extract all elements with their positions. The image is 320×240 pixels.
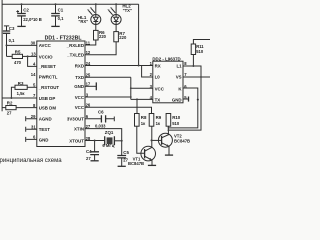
svg-text:DD2 - L9637D: DD2 - L9637D [152, 56, 180, 61]
svg-text:27: 27 [86, 156, 91, 161]
svg-text:27: 27 [7, 111, 12, 116]
svg-text:26: 26 [86, 103, 91, 108]
svg-text:27: 27 [86, 124, 91, 129]
svg-text:R3: R3 [18, 81, 24, 86]
svg-text:"TX": "TX" [123, 8, 132, 13]
svg-text:470: 470 [14, 60, 22, 65]
svg-text:C2: C2 [23, 7, 29, 12]
svg-text:L0: L0 [155, 75, 161, 80]
svg-text:12: 12 [86, 50, 91, 55]
svg-text:BC847B: BC847B [128, 161, 144, 166]
svg-text:VS: VS [176, 75, 182, 80]
svg-text:BC847B: BC847B [174, 139, 190, 144]
svg-text:28: 28 [86, 136, 91, 141]
svg-text:11: 11 [86, 41, 91, 46]
svg-text:0,033: 0,033 [95, 123, 106, 128]
svg-text:220: 220 [119, 35, 127, 40]
svg-text:XTIN: XTIN [74, 127, 84, 132]
svg-text:ринципиальная схема: ринципиальная схема [0, 158, 62, 164]
svg-text:TX: TX [155, 98, 161, 103]
svg-text:C1: C1 [58, 7, 64, 12]
svg-text:AGND: AGND [39, 117, 52, 122]
svg-text:C6: C6 [98, 110, 104, 115]
svg-text:TXD: TXD [75, 75, 84, 80]
svg-text:GND: GND [172, 98, 182, 103]
svg-text:USB DP: USB DP [39, 96, 56, 101]
svg-text:XTOUT: XTOUT [69, 138, 84, 143]
svg-text:3V3OUT: 3V3OUT [67, 117, 84, 122]
svg-text:C5: C5 [123, 150, 129, 155]
svg-text:510: 510 [196, 49, 204, 54]
svg-text:6 МГц: 6 МГц [102, 143, 114, 148]
svg-text:C4: C4 [86, 149, 92, 154]
svg-text:PWRCTL: PWRCTL [39, 75, 58, 80]
svg-text:GND: GND [74, 84, 84, 89]
svg-text:RX: RX [155, 64, 161, 69]
svg-text:R2: R2 [7, 101, 13, 106]
svg-text:24: 24 [86, 61, 91, 66]
svg-text:30: 30 [31, 41, 36, 46]
svg-text:R5: R5 [15, 50, 21, 55]
svg-text:RXD: RXD [75, 63, 84, 68]
svg-text:DD1 - FT232BL: DD1 - FT232BL [45, 35, 83, 41]
svg-text:1,5к: 1,5к [17, 91, 26, 96]
svg-text:L1: L1 [176, 64, 182, 69]
svg-text:0,1: 0,1 [58, 16, 64, 21]
svg-text:13: 13 [31, 52, 36, 57]
svg-text:17: 17 [86, 82, 91, 87]
svg-text:22,0*10 В: 22,0*10 В [23, 17, 42, 22]
svg-text:"RX": "RX" [78, 19, 88, 24]
svg-text:25: 25 [86, 73, 91, 78]
svg-text:220: 220 [99, 34, 107, 39]
svg-text:14: 14 [31, 72, 36, 77]
svg-text:R8: R8 [141, 115, 147, 120]
svg-text:_TXLED: _TXLED [66, 53, 84, 58]
svg-text:USB DM: USB DM [39, 106, 57, 111]
svg-text:_RESET: _RESET [38, 64, 56, 69]
svg-text:VCC: VCC [75, 95, 85, 100]
svg-text:R9: R9 [156, 115, 162, 120]
svg-text:C3: C3 [9, 26, 15, 31]
svg-text:TEST: TEST [39, 127, 51, 132]
svg-text:0,1: 0,1 [9, 38, 15, 43]
svg-text:29: 29 [31, 114, 36, 119]
svg-text:31: 31 [31, 125, 36, 130]
svg-text:VCC: VCC [155, 86, 165, 91]
svg-text:AVCC: AVCC [39, 43, 52, 48]
svg-text:_RXLED: _RXLED [66, 43, 84, 48]
svg-text:_RSTOUT: _RSTOUT [38, 85, 60, 90]
svg-text:510: 510 [172, 121, 180, 126]
svg-text:VCCIO: VCCIO [39, 54, 53, 59]
svg-text:GND: GND [39, 137, 49, 142]
svg-text:R10: R10 [172, 115, 181, 120]
svg-text:VCC: VCC [75, 105, 85, 110]
svg-text:ZQ1: ZQ1 [105, 130, 114, 135]
